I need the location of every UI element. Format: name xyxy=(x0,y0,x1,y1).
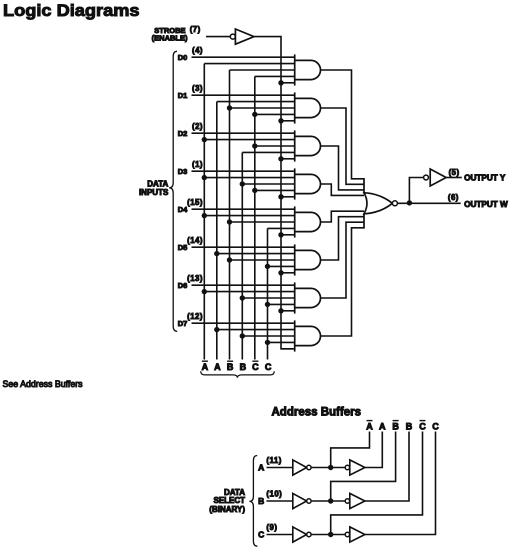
node output junction xyxy=(407,200,412,205)
wire strobe to gates (vertical strobe net) xyxy=(254,37,295,349)
svg-text:B: B xyxy=(240,362,247,372)
svg-text:D3: D3 xyxy=(178,167,188,176)
wire C inverted net xyxy=(311,534,345,536)
wire G8 input from C xyxy=(268,341,295,343)
svg-text:C: C xyxy=(258,530,264,540)
wire G3 input from A̅ (not-A) xyxy=(204,139,294,141)
wire select column B xyxy=(241,152,243,359)
wire G1 input from A̅ (not-A) xyxy=(204,63,294,65)
label STROBE (ENABLE) xyxy=(152,26,188,43)
svg-text:D1: D1 xyxy=(178,91,188,100)
svg-text:A: A xyxy=(379,421,386,431)
label A (buffer output) xyxy=(379,421,386,431)
label A̅ (not-A) (column bottom) xyxy=(202,361,209,372)
label C (column bottom) xyxy=(265,362,272,372)
label not-B (buffer output) xyxy=(392,421,399,432)
label C (buffer output) xyxy=(432,421,439,431)
node strobe to G3 xyxy=(278,156,283,161)
wire G2 input from B̅ (not-B) xyxy=(230,107,295,109)
wire G2 output to summing gate xyxy=(321,108,365,184)
AND gate G6 (D5) xyxy=(294,244,296,275)
inverter first stage C (output bubble) xyxy=(293,527,311,542)
AND gate G1 (D0) xyxy=(294,54,296,85)
wire not-C to column xyxy=(331,432,423,535)
svg-text:(5): (5) xyxy=(449,168,460,177)
node A̅ (not-A) to G3 xyxy=(202,137,207,142)
svg-text:B: B xyxy=(392,421,399,431)
inverter first stage A (output bubble) xyxy=(293,460,311,475)
svg-text:SELECT: SELECT xyxy=(213,496,245,505)
wire A input xyxy=(267,467,293,469)
label C̅ (not-C) (column bottom) xyxy=(252,361,259,372)
svg-text:B: B xyxy=(406,421,413,431)
wire NOR output to W xyxy=(398,202,461,204)
wire B inverted net xyxy=(311,500,345,502)
wire G6 input from A xyxy=(217,253,295,255)
node strobe to G1 xyxy=(278,80,283,85)
wire G6 input from C xyxy=(268,265,295,267)
node A̅ (not-A) to G7 xyxy=(202,289,207,294)
wire G6 output to summing gate xyxy=(321,217,365,260)
wire select column C̅ (not-C) xyxy=(254,76,256,359)
wire A true to column xyxy=(365,432,382,468)
node strobe to G2 xyxy=(278,118,283,123)
AND gate G7 (D6) xyxy=(294,282,296,313)
svg-text:D0: D0 xyxy=(178,53,188,62)
label B (buffer output) xyxy=(406,421,413,431)
wire G7 output to summing gate xyxy=(321,222,365,298)
wire G5 input from C xyxy=(268,227,295,229)
brace data select xyxy=(249,456,257,547)
svg-text:(4): (4) xyxy=(192,46,203,55)
wire G3 strobe input xyxy=(281,158,295,160)
inverter U1 strobe (input bubble) xyxy=(230,29,254,44)
label B (column bottom) xyxy=(240,362,247,372)
node A to G6 xyxy=(214,251,219,256)
node C to G8 xyxy=(265,340,270,345)
svg-text:Logic Diagrams: Logic Diagrams xyxy=(3,1,140,20)
node A̅ (not-A) to G5 xyxy=(202,213,207,218)
svg-text:D2: D2 xyxy=(178,129,188,138)
node strobe to G4 xyxy=(278,194,283,199)
label DATA INPUTS xyxy=(139,179,169,197)
svg-text:A: A xyxy=(366,421,373,431)
svg-text:DATA: DATA xyxy=(147,179,168,188)
AND gate G5 (D4) xyxy=(294,206,296,237)
node strobe to G7 xyxy=(278,308,283,313)
wire G6 input from B̅ (not-B) xyxy=(230,259,295,261)
wire C true to column xyxy=(365,432,436,535)
node B to G8 xyxy=(240,333,245,338)
node strobe to G6 xyxy=(278,270,283,275)
wire D6 to gate G7 xyxy=(192,284,295,286)
node strobe to G5 xyxy=(278,232,283,237)
svg-text:(6): (6) xyxy=(448,193,459,202)
svg-text:A: A xyxy=(258,463,264,473)
svg-text:OUTPUT W: OUTPUT W xyxy=(464,200,508,209)
svg-text:Address Buffers: Address Buffers xyxy=(272,406,361,418)
wire G7 input from A̅ (not-A) xyxy=(204,291,294,293)
node B̅ (not-B) to G2 xyxy=(227,105,232,110)
svg-text:(12): (12) xyxy=(187,312,203,321)
inverter first stage B (output bubble) xyxy=(293,493,311,508)
wire G8 output to summing gate xyxy=(321,228,365,336)
wire G4 input from C̅ (not-C) xyxy=(255,189,295,191)
wire G3 input from B xyxy=(242,151,294,153)
node B to G7 xyxy=(240,295,245,300)
wire G5 input from B̅ (not-B) xyxy=(230,221,295,223)
svg-text:(14): (14) xyxy=(187,236,203,245)
svg-text:(11): (11) xyxy=(266,456,281,465)
wire junction to Y inverter xyxy=(409,178,423,203)
wire D3 to gate G4 xyxy=(192,170,295,172)
NOR gate (output summing) xyxy=(364,178,397,229)
wire G5 input from A̅ (not-A) xyxy=(204,215,294,217)
wire D2 to gate G3 xyxy=(192,132,295,134)
node C̅ (not-C) to G3 xyxy=(252,143,257,148)
node not-B junction xyxy=(328,498,333,503)
wire G3 output to summing gate xyxy=(321,146,365,190)
wire A inverted net xyxy=(311,467,345,469)
brace data inputs xyxy=(169,51,177,331)
wire C input xyxy=(267,534,293,536)
wire G8 strobe input xyxy=(281,348,295,350)
node A to G8 xyxy=(214,327,219,332)
node C̅ (not-C) to G4 xyxy=(252,188,257,193)
svg-text:D5: D5 xyxy=(178,243,188,252)
wire G4 strobe input xyxy=(281,196,295,198)
wire D4 to gate G5 xyxy=(192,208,295,210)
AND gate G3 (D2) xyxy=(294,130,296,161)
svg-text:D6: D6 xyxy=(178,281,188,290)
wire select column C xyxy=(267,228,269,359)
wire G8 input from B xyxy=(242,335,294,337)
node C̅ (not-C) to G2 xyxy=(252,112,257,117)
svg-text:(9): (9) xyxy=(266,523,277,532)
node C to G7 xyxy=(265,302,270,307)
wire D5 to gate G6 xyxy=(192,246,295,248)
svg-text:(1): (1) xyxy=(192,160,203,169)
inverter U2 output Y (input bubble) xyxy=(424,169,447,186)
svg-text:See Address Buffers: See Address Buffers xyxy=(3,379,84,389)
wire strobe input xyxy=(206,36,230,38)
wire select column A̅ (not-A) xyxy=(203,64,205,360)
AND gate G2 (D1) xyxy=(294,92,296,123)
svg-text:(ENABLE): (ENABLE) xyxy=(152,34,188,43)
svg-text:OUTPUT Y: OUTPUT Y xyxy=(464,173,506,182)
svg-text:A: A xyxy=(214,362,221,372)
wire D1 to gate G2 xyxy=(192,94,295,96)
svg-text:(10): (10) xyxy=(266,490,282,499)
wire G1 strobe input xyxy=(281,82,295,84)
wire Y output xyxy=(446,177,462,179)
inverter second stage A (input bubble) xyxy=(345,460,365,475)
node C to G6 xyxy=(265,264,270,269)
svg-text:B: B xyxy=(227,362,234,372)
wire G4 input from A̅ (not-A) xyxy=(204,177,294,179)
wire not-A to column xyxy=(331,432,370,468)
wire G5 strobe input xyxy=(281,234,295,236)
svg-text:(15): (15) xyxy=(187,198,203,207)
brace to address buffers xyxy=(201,371,275,378)
label B̅ (not-B) (column bottom) xyxy=(227,361,234,372)
wire G2 input from C̅ (not-C) xyxy=(255,113,295,115)
wire G3 input from C̅ (not-C) xyxy=(255,145,295,147)
label not-C (buffer output) xyxy=(419,421,426,432)
node not-A junction xyxy=(328,465,333,470)
node B to G4 xyxy=(240,181,245,186)
wire G2 input from A xyxy=(217,101,295,103)
wire G2 strobe input xyxy=(281,120,295,122)
node not-C junction xyxy=(328,532,333,537)
label not-A (buffer output) xyxy=(366,421,373,432)
node A̅ (not-A) to G4 xyxy=(202,175,207,180)
svg-text:C: C xyxy=(252,362,259,372)
svg-text:(13): (13) xyxy=(187,274,203,283)
svg-text:(2): (2) xyxy=(192,122,203,131)
wire G4 output to summing gate xyxy=(321,184,365,195)
wire G1 input from B̅ (not-B) xyxy=(230,69,295,71)
svg-text:A: A xyxy=(202,362,209,372)
label DATA SELECT (BINARY) xyxy=(209,488,245,514)
wire G1 output to summing gate xyxy=(321,70,365,179)
wire D0 to gate G1 xyxy=(192,56,295,58)
svg-text:B: B xyxy=(258,496,264,506)
inverter second stage C (input bubble) xyxy=(345,527,365,542)
svg-text:INPUTS: INPUTS xyxy=(139,188,169,197)
svg-text:C: C xyxy=(419,421,426,431)
wire select column A xyxy=(216,102,218,360)
wire G1 input from C̅ (not-C) xyxy=(255,75,295,77)
node B̅ (not-B) to G6 xyxy=(227,257,232,262)
label A (column bottom) xyxy=(214,362,221,372)
svg-text:(BINARY): (BINARY) xyxy=(209,505,245,514)
svg-text:C: C xyxy=(432,421,439,431)
wire G7 input from C xyxy=(268,303,295,305)
AND gate G4 (D3) xyxy=(294,168,296,199)
svg-text:(7): (7) xyxy=(190,25,201,34)
wire B true to column xyxy=(365,432,409,502)
wire G7 strobe input xyxy=(281,310,295,312)
wire G8 input from A xyxy=(217,329,295,331)
wire not-B to column xyxy=(331,432,396,502)
node B̅ (not-B) to G5 xyxy=(227,219,232,224)
svg-text:(3): (3) xyxy=(192,84,203,93)
wire D7 to gate G8 xyxy=(192,322,295,324)
wire G5 output to summing gate xyxy=(321,211,365,222)
svg-text:D7: D7 xyxy=(178,319,188,328)
AND gate G8 (D7) xyxy=(294,320,296,351)
wire G4 input from B xyxy=(242,183,294,185)
wire G7 input from B xyxy=(242,297,294,299)
inverter second stage B (input bubble) xyxy=(345,493,365,508)
wire B input xyxy=(267,500,293,502)
svg-text:C: C xyxy=(265,362,272,372)
wire G6 strobe input xyxy=(281,272,295,274)
wire select column B̅ (not-B) xyxy=(229,70,231,360)
